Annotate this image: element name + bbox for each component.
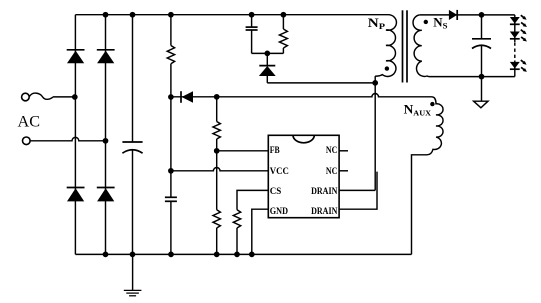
junction: drain-clamp node [372, 80, 378, 86]
junction: snubber-diode node [264, 51, 270, 57]
diode D1 (bridge, top-left) [67, 50, 85, 63]
wire: secondary bottom [430, 76, 515, 78]
junction: bottom rail / right bridge leg [103, 252, 109, 258]
wire: bridge left leg [74, 15, 76, 255]
svg-text:NC: NC [326, 166, 338, 177]
svg-text:DRAIN: DRAIN [311, 206, 337, 217]
resistor R5 (CS sense) [233, 210, 240, 255]
wire: GND pin [252, 209, 268, 254]
phase dot Naux [430, 102, 434, 106]
svg-text:FB: FB [270, 145, 280, 156]
transformer auxiliary Naux [412, 97, 444, 255]
LED string vertical [514, 15, 516, 42]
wire: top DC bus rail [75, 14, 388, 16]
junction: bottom rail / CS resistor [234, 252, 240, 258]
LED D10 [510, 60, 527, 72]
capacitor C4 (output) [472, 15, 491, 77]
wire: drain vertical to Np [374, 76, 376, 190]
capacitor C2 (VCC) [165, 197, 177, 254]
resistor R4 (snubber) [279, 15, 287, 54]
op-amp/IC U1 (controller) [268, 135, 339, 217]
wire: snubber bottom join [252, 52, 284, 54]
diode D7 (output rectifier) [449, 10, 457, 20]
junction: top rail / snubber resistor [281, 12, 287, 18]
transformer T1 primary Np [375, 15, 396, 77]
diode D5 (VCC rectifier from Naux) [171, 91, 217, 103]
svg-text:NC: NC [326, 145, 338, 156]
AC terminal N [23, 137, 31, 145]
wire: FB pin [217, 150, 269, 152]
junction: top rail / startup resistor [168, 12, 174, 18]
junction: output top node [479, 12, 485, 18]
pin stub NC1 [339, 150, 348, 152]
LED D9 [510, 30, 527, 42]
transformer secondary Ns [413, 15, 429, 77]
wire: bridge right leg [105, 15, 107, 255]
svg-text:CS: CS [270, 186, 282, 197]
resistor R2 (FB upper divider) [213, 97, 220, 210]
wire: fuse to bridge [53, 96, 75, 98]
resistor R1 (startup, from bus) [167, 15, 174, 198]
svg-text:DRAIN: DRAIN [311, 186, 337, 197]
wire: DRAIN upper [339, 189, 375, 191]
capacitor C1 (bulk electrolytic) [122, 15, 142, 255]
svg-text:GND: GND [270, 206, 288, 217]
wire: clamp to drain node [267, 82, 375, 84]
diode D3 (bridge, bottom-left) [67, 188, 85, 202]
junction: output bottom node [479, 74, 485, 80]
wire: VCC pin (hop over divider) [171, 167, 268, 170]
resistor R3 (FB lower divider) [213, 210, 220, 255]
junction: top rail / snubber cap [249, 12, 255, 18]
AC terminal L [22, 93, 30, 101]
phase dot Ns [424, 20, 428, 24]
wire: secondary top [420, 14, 515, 16]
junction: FB divider top node [214, 94, 220, 100]
phase dot Np [385, 66, 389, 70]
junction: top rail / right bridge leg [103, 12, 109, 18]
transformer core [403, 10, 408, 82]
pin stub NC2 [339, 170, 348, 172]
fuse F1 [29, 93, 53, 99]
svg-text:VCC: VCC [270, 166, 289, 177]
wire: CS pin to Rcs [237, 190, 268, 209]
junction: VCC line node [168, 168, 174, 174]
diode D6 (clamp) [259, 53, 276, 83]
junction: line-bridge node [72, 94, 78, 100]
junction: bottom rail / VCC cap [168, 252, 174, 258]
junction: bottom rail / GND pin wire [249, 252, 255, 258]
diode D4 (bridge, bottom-right) [97, 188, 115, 202]
LED D8 [510, 15, 527, 27]
junction: neutral-bridge node [103, 138, 109, 144]
diode D2 (bridge, top-right) [97, 50, 115, 63]
junction: FB node [214, 148, 220, 154]
junction: VCC diode node [168, 94, 174, 100]
junction: bottom rail / FB lower resistor [214, 252, 220, 258]
wire: DRAIN lower [339, 172, 377, 210]
junction: top rail / bulk cap [130, 12, 136, 18]
wire: aux line to Naux (hop over drain line) [217, 93, 432, 96]
junction: bottom rail / bulk cap + earth [130, 252, 136, 258]
svg-text:AC: AC [18, 112, 41, 130]
ground (secondary) [474, 77, 488, 108]
wire: neutral to bridge (hop over left leg) [30, 137, 105, 140]
capacitor C3 (snubber) [246, 15, 258, 54]
ground (earth) symbol [124, 254, 142, 295]
wire: bottom ground rail [75, 253, 411, 255]
